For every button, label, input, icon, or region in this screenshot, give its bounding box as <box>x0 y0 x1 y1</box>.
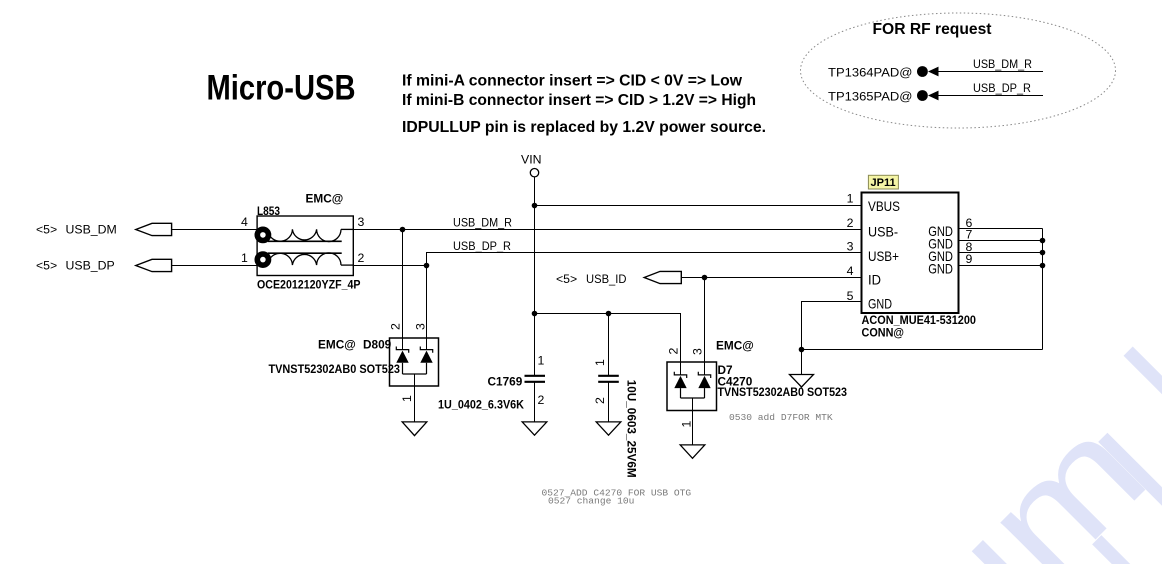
svg-text:GND: GND <box>928 260 953 276</box>
svg-text:3: 3 <box>358 215 365 229</box>
svg-text:USB_ID: USB_ID <box>586 272 627 286</box>
wire VIN vertical <box>534 177 536 376</box>
wire cap rail to D7 <box>535 314 681 375</box>
svg-text:If mini-B connector insert =>: If mini-B connector insert => CID > 1.2V… <box>402 92 756 109</box>
common-mode choke L853 <box>241 192 365 292</box>
svg-text:CONN@: CONN@ <box>862 325 905 339</box>
wire USB_ID to JP11 pin 4 <box>681 277 861 279</box>
L853 winding B (bottom) <box>268 253 353 265</box>
svg-text:1: 1 <box>593 359 607 366</box>
wire D809 pin 2 drop <box>402 230 404 350</box>
D7 common anode joiner <box>681 397 705 399</box>
junction 10U tap <box>606 311 612 317</box>
ground (D7) <box>680 445 705 458</box>
wire JP11 pin 7 <box>958 240 1042 242</box>
svg-text:D809: D809 <box>363 338 392 352</box>
wire USB_DP entry <box>172 265 262 267</box>
svg-text:3: 3 <box>691 348 705 355</box>
svg-text:3: 3 <box>847 239 854 253</box>
svg-text:2: 2 <box>538 393 545 407</box>
svg-text:2: 2 <box>593 397 607 404</box>
power node VIN <box>521 153 542 177</box>
svg-text:USB-: USB- <box>868 224 898 240</box>
ground (C1769) <box>522 422 547 435</box>
svg-text:4: 4 <box>241 215 248 229</box>
junction D809 pin 2 tap <box>400 227 406 233</box>
wire L853 pin 2 out <box>353 265 426 267</box>
wire VBUS to JP11 pin 1 <box>535 205 862 207</box>
wire JP11 pin 8 <box>958 252 1042 254</box>
svg-text:9: 9 <box>966 252 973 266</box>
wire JP11 pin 5 <box>802 302 862 350</box>
svg-text:1: 1 <box>241 251 248 265</box>
ESD diode array D7 <box>667 339 848 445</box>
svg-text:USB_DM: USB_DM <box>66 223 117 237</box>
svg-text:VIN: VIN <box>521 153 542 167</box>
testpoint TP1365PAD@ <box>828 89 939 103</box>
port USB_DM <box>36 223 172 237</box>
watermark <box>882 347 1162 564</box>
svg-text:EMC@: EMC@ <box>318 338 356 352</box>
wire JP11 pin 6 <box>958 228 1042 230</box>
svg-text:FOR RF request: FOR RF request <box>873 21 992 38</box>
L853 polarity dot pin 4 <box>257 229 268 240</box>
testpoint TP1364PAD@ <box>828 66 939 80</box>
svg-text:IDPULLUP pin is replaced by 1.: IDPULLUP pin is replaced by 1.2V power s… <box>402 119 766 136</box>
svg-text:TVNST52302AB0 SOT523: TVNST52302AB0 SOT523 <box>269 362 401 376</box>
svg-text:1: 1 <box>538 354 545 368</box>
wire GND bus bottom <box>802 349 1043 351</box>
svg-text:2: 2 <box>847 216 854 230</box>
svg-text:2: 2 <box>667 348 681 355</box>
wire D809 pin 3 drop <box>426 266 428 350</box>
junction D809 pin 3 tap <box>424 263 430 269</box>
L853 winding A (top) <box>268 229 353 241</box>
junction pin 8 <box>1040 250 1046 256</box>
svg-text:USB_DM_R: USB_DM_R <box>453 216 512 230</box>
D809 diode b <box>420 347 432 375</box>
svg-text:C1769: C1769 <box>488 375 523 389</box>
port USB_ID <box>556 271 681 286</box>
svg-text:TP1364PAD@: TP1364PAD@ <box>828 66 913 80</box>
ESD diode array D809 <box>269 323 439 422</box>
svg-text:OCE2012120YZF_4P: OCE2012120YZF_4P <box>257 278 361 292</box>
wire USB_DM_R <box>353 229 861 231</box>
svg-text:0527 change 10u: 0527 change 10u <box>548 496 634 507</box>
D809 common anode joiner <box>403 373 427 375</box>
svg-text:2: 2 <box>358 251 365 265</box>
wire USB_DM_R (in ellipse) <box>939 71 1044 73</box>
svg-text:GND: GND <box>868 296 892 312</box>
port USB_DP <box>36 259 172 273</box>
wire USB_DM entry <box>172 229 262 231</box>
svg-text:USB+: USB+ <box>868 248 899 264</box>
connector JP11 <box>847 175 977 339</box>
wire USB_DP_R riser <box>427 253 862 266</box>
wire USB_DP_R (in ellipse) <box>939 95 1044 97</box>
svg-text:If mini-A connector insert =>: If mini-A connector insert => CID < 0V =… <box>402 72 743 89</box>
svg-text:TVNST52302AB0 SOT523: TVNST52302AB0 SOT523 <box>718 385 848 399</box>
svg-text:2: 2 <box>389 323 403 330</box>
svg-text:0530 add D7FOR MTK: 0530 add D7FOR MTK <box>729 412 833 423</box>
junction pin 7 <box>1040 238 1046 244</box>
svg-text:JP11: JP11 <box>871 177 896 189</box>
RF request ellipse <box>801 13 1116 128</box>
D7 pin 1 lead <box>692 398 694 445</box>
svg-text:1U_0402_6.3V6K: 1U_0402_6.3V6K <box>438 398 524 412</box>
D7 diode a <box>674 372 686 398</box>
svg-text:Micro-USB: Micro-USB <box>207 69 356 108</box>
junction pin 9 <box>1040 263 1046 269</box>
wire GND stub <box>801 350 803 375</box>
svg-text:<5>: <5> <box>36 259 57 273</box>
wire GND bus vertical <box>1042 229 1044 350</box>
D7 diode b <box>698 372 710 398</box>
svg-text:USB_DP: USB_DP <box>66 259 115 273</box>
svg-text:4: 4 <box>847 264 854 278</box>
svg-text:1: 1 <box>847 191 854 205</box>
junction GND node <box>799 347 805 353</box>
svg-text:VBUS: VBUS <box>868 198 900 214</box>
wire D7 pin 3 drop <box>704 278 706 375</box>
svg-text:5: 5 <box>847 289 854 303</box>
svg-text:L853: L853 <box>257 204 280 218</box>
svg-text:3: 3 <box>414 323 428 330</box>
capacitor C1769 <box>438 354 545 422</box>
junction D7 pin 3 tap <box>702 275 708 281</box>
svg-text:<5>: <5> <box>556 272 577 286</box>
svg-text:EMC@: EMC@ <box>306 192 344 206</box>
capacitor C4269 10U <box>593 314 639 478</box>
svg-text:ID: ID <box>868 272 881 288</box>
svg-text:1: 1 <box>680 421 694 428</box>
ground (D809) <box>402 422 427 436</box>
svg-text:1: 1 <box>400 395 414 402</box>
svg-text:USB_DP_R: USB_DP_R <box>973 81 1031 95</box>
JP11 refdes tag <box>868 175 898 189</box>
L853 polarity dot pin 1 <box>257 254 268 265</box>
svg-text:USB_DM_R: USB_DM_R <box>973 57 1032 71</box>
svg-text:10U_0603_25V6M: 10U_0603_25V6M <box>625 380 639 478</box>
svg-text:<5>: <5> <box>36 223 57 237</box>
svg-text:TP1365PAD@: TP1365PAD@ <box>828 89 913 103</box>
junction VIN/cap rail <box>532 311 538 317</box>
junction VIN/VBUS <box>532 203 538 209</box>
wire JP11 pin 9 <box>958 265 1042 267</box>
ground (JP11) <box>790 375 814 388</box>
ground (10U cap) <box>596 422 621 435</box>
D809 pin 1 lead <box>414 374 416 422</box>
D809 diode a <box>396 347 408 375</box>
svg-text:EMC@: EMC@ <box>716 339 754 353</box>
svg-text:USB_DP_R: USB_DP_R <box>453 239 511 253</box>
